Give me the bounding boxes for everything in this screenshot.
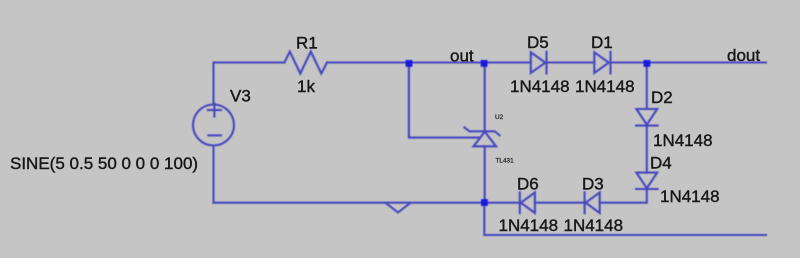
wire D1 to dout junction: [611, 61, 647, 63]
wire out junction down to TL431 ref: [409, 63, 479, 138]
wire ground rail: [214, 202, 485, 204]
node ground junction: [481, 199, 488, 206]
diode D4: [636, 173, 658, 189]
wire D4 down and left to D3: [600, 189, 647, 203]
svg-text:D4: D4: [650, 154, 672, 173]
svg-text:TL431: TL431: [496, 158, 515, 165]
wire V3 top stub: [212, 63, 214, 105]
wire dout junction down to D2: [646, 63, 648, 110]
diode D6: [520, 192, 535, 213]
node dout junction: [644, 60, 651, 67]
resistor R1: [285, 52, 328, 74]
wire junction down to bottom rail: [484, 203, 766, 235]
svg-text:1N4148: 1N4148: [653, 131, 713, 150]
diode D2: [636, 109, 658, 126]
svg-text:1k: 1k: [297, 77, 315, 96]
svg-text:SINE(5 0.5 50 0 0 0 100): SINE(5 0.5 50 0 0 0 100): [10, 154, 198, 173]
wire D3 to D6: [535, 202, 585, 204]
op-amp U2 TL431: [464, 127, 499, 146]
wire dout: [647, 61, 766, 63]
ground: [387, 204, 410, 213]
svg-text:1N4148: 1N4148: [510, 77, 570, 96]
diode D5: [531, 52, 547, 74]
svg-text:1N4148: 1N4148: [564, 216, 624, 235]
wire junction down to TL431 cathode: [484, 63, 486, 132]
svg-text:dout: dout: [727, 46, 760, 65]
wire out to second junction: [409, 61, 484, 63]
svg-text:D3: D3: [582, 175, 604, 194]
svg-text:D5: D5: [527, 33, 549, 52]
svg-text:1N4148: 1N4148: [660, 187, 720, 206]
svg-text:1N4148: 1N4148: [575, 77, 635, 96]
diode D1: [594, 52, 610, 74]
wire TL431 anode to ground rail: [484, 146, 486, 202]
svg-text:U2: U2: [495, 114, 504, 121]
wire D5 to D1: [547, 61, 595, 63]
svg-text:1N4148: 1N4148: [499, 216, 559, 235]
voltage source V3: [193, 104, 234, 146]
svg-text:R1: R1: [296, 34, 318, 53]
wire D2 to D4: [646, 126, 648, 173]
wire R1 to node out: [327, 61, 409, 63]
node out junction 2: [481, 60, 488, 67]
svg-text:D1: D1: [591, 33, 613, 52]
svg-text:D6: D6: [517, 175, 539, 194]
diode D3: [585, 192, 600, 213]
wire junction to D5: [484, 61, 531, 63]
svg-text:out: out: [450, 47, 474, 66]
wire top from V3 to R1: [214, 61, 285, 63]
wire V3 bottom to ground rail: [212, 146, 214, 203]
svg-text:V3: V3: [230, 87, 251, 106]
svg-text:D2: D2: [651, 88, 673, 107]
wire D6 to ground junction: [484, 202, 520, 204]
node out junction 1: [406, 60, 413, 67]
